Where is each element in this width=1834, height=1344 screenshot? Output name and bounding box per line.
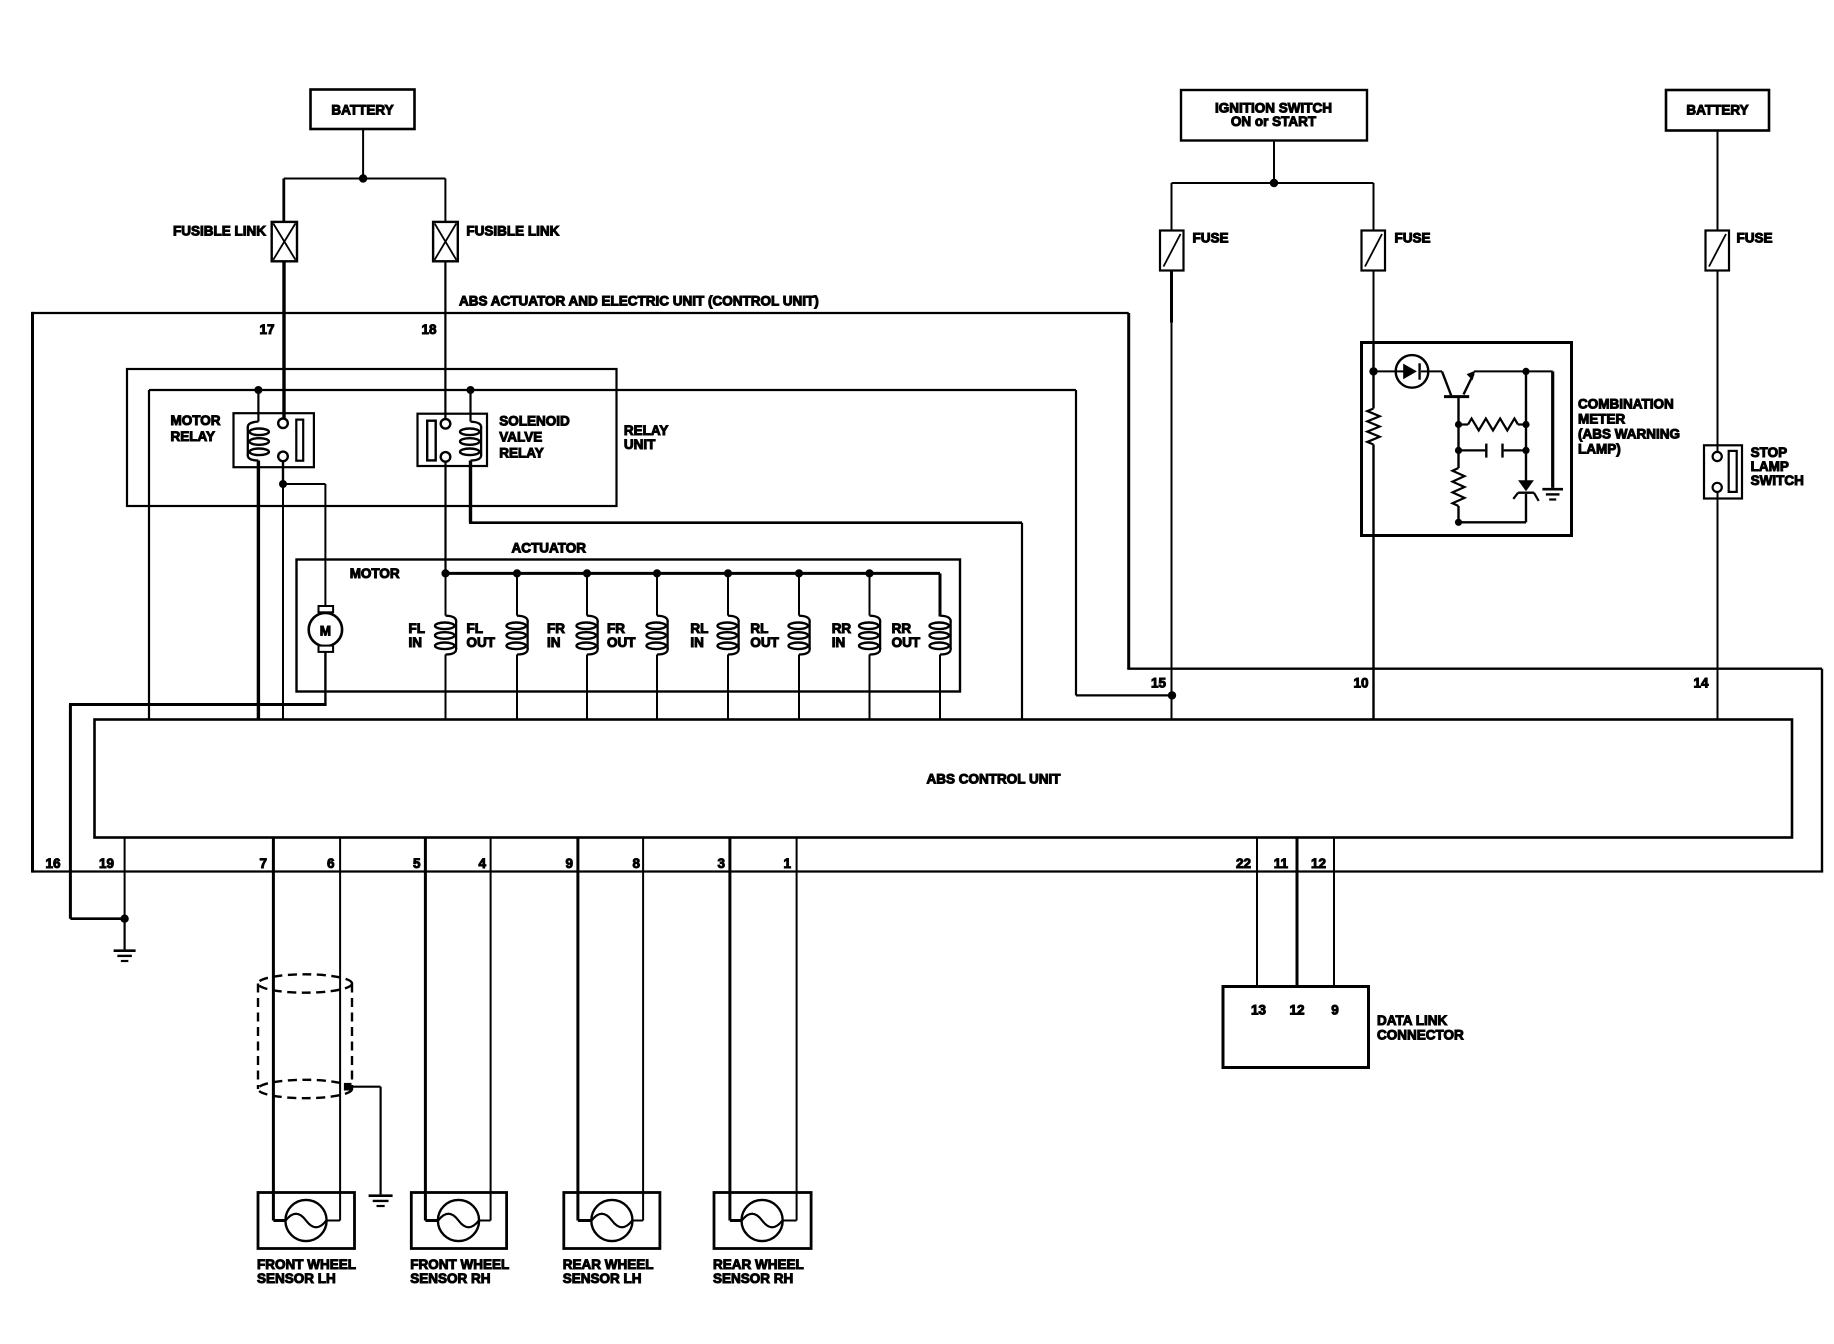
svg-text:8: 8 — [632, 856, 640, 871]
svg-text:4: 4 — [478, 856, 486, 871]
svg-text:7: 7 — [259, 856, 267, 871]
svg-text:RELAY: RELAY — [624, 423, 669, 438]
svg-text:REAR WHEEL: REAR WHEEL — [713, 1257, 804, 1272]
svg-text:OUT: OUT — [892, 635, 921, 650]
svg-text:LAMP: LAMP — [1751, 459, 1789, 474]
svg-text:15: 15 — [1151, 676, 1167, 691]
svg-text:FL: FL — [409, 621, 426, 636]
svg-text:MOTOR: MOTOR — [171, 413, 221, 428]
svg-text:10: 10 — [1353, 676, 1368, 691]
svg-text:OUT: OUT — [467, 635, 496, 650]
svg-text:STOP: STOP — [1751, 445, 1788, 460]
svg-text:FRONT WHEEL: FRONT WHEEL — [257, 1257, 356, 1272]
svg-text:11: 11 — [1274, 856, 1289, 871]
svg-text:SENSOR RH: SENSOR RH — [410, 1271, 490, 1286]
svg-text:FR: FR — [547, 621, 565, 636]
svg-text:ABS CONTROL UNIT: ABS CONTROL UNIT — [927, 772, 1062, 787]
svg-text:MOTOR: MOTOR — [350, 566, 400, 581]
svg-text:12: 12 — [1311, 856, 1326, 871]
svg-text:CONNECTOR: CONNECTOR — [1377, 1028, 1464, 1043]
svg-text:OUT: OUT — [750, 635, 779, 650]
svg-text:ON or START: ON or START — [1231, 114, 1317, 129]
svg-text:5: 5 — [413, 856, 421, 871]
svg-text:COMBINATION: COMBINATION — [1578, 397, 1674, 412]
svg-text:OUT: OUT — [607, 635, 636, 650]
svg-text:SWITCH: SWITCH — [1751, 473, 1804, 488]
svg-text:METER: METER — [1578, 412, 1626, 427]
svg-text:IN: IN — [547, 635, 561, 650]
svg-text:22: 22 — [1236, 856, 1251, 871]
svg-text:16: 16 — [45, 856, 61, 871]
svg-text:FR: FR — [607, 621, 625, 636]
svg-text:FRONT WHEEL: FRONT WHEEL — [410, 1257, 509, 1272]
svg-text:RR: RR — [892, 621, 912, 636]
svg-text:(ABS WARNING: (ABS WARNING — [1578, 427, 1680, 442]
svg-text:FUSE: FUSE — [1737, 231, 1773, 246]
svg-text:M: M — [320, 623, 331, 638]
svg-text:IN: IN — [690, 635, 704, 650]
svg-text:3: 3 — [717, 856, 725, 871]
svg-text:18: 18 — [421, 322, 437, 337]
svg-text:SENSOR LH: SENSOR LH — [257, 1271, 336, 1286]
svg-text:SOLENOID: SOLENOID — [499, 414, 570, 429]
svg-text:IN: IN — [409, 635, 423, 650]
svg-text:FUSIBLE LINK: FUSIBLE LINK — [466, 224, 559, 239]
svg-text:12: 12 — [1289, 1003, 1304, 1018]
svg-text:19: 19 — [99, 856, 114, 871]
svg-text:13: 13 — [1251, 1003, 1267, 1018]
svg-text:REAR WHEEL: REAR WHEEL — [563, 1257, 654, 1272]
svg-text:BATTERY: BATTERY — [331, 103, 393, 118]
svg-text:14: 14 — [1693, 676, 1709, 691]
svg-text:6: 6 — [327, 856, 335, 871]
svg-text:FUSIBLE LINK: FUSIBLE LINK — [173, 224, 266, 239]
svg-text:SENSOR LH: SENSOR LH — [563, 1271, 642, 1286]
svg-text:SENSOR RH: SENSOR RH — [713, 1271, 793, 1286]
svg-text:RR: RR — [832, 621, 852, 636]
svg-text:FUSE: FUSE — [1395, 231, 1431, 246]
svg-text:ABS ACTUATOR AND ELECTRIC UNIT: ABS ACTUATOR AND ELECTRIC UNIT (CONTROL … — [459, 294, 819, 309]
svg-text:9: 9 — [565, 856, 573, 871]
svg-text:FUSE: FUSE — [1193, 231, 1229, 246]
svg-text:BATTERY: BATTERY — [1686, 103, 1748, 118]
svg-text:IN: IN — [832, 635, 846, 650]
svg-text:ACTUATOR: ACTUATOR — [512, 541, 587, 556]
svg-text:FL: FL — [467, 621, 484, 636]
svg-text:RL: RL — [690, 621, 708, 636]
svg-text:RELAY: RELAY — [499, 446, 544, 461]
svg-text:9: 9 — [1331, 1003, 1339, 1018]
svg-text:RELAY: RELAY — [171, 429, 216, 444]
svg-text:17: 17 — [259, 322, 274, 337]
svg-text:1: 1 — [783, 856, 791, 871]
svg-text:LAMP): LAMP) — [1578, 442, 1621, 457]
svg-text:VALVE: VALVE — [499, 430, 542, 445]
svg-text:RL: RL — [750, 621, 768, 636]
svg-text:UNIT: UNIT — [624, 437, 656, 452]
svg-text:DATA LINK: DATA LINK — [1377, 1013, 1447, 1028]
